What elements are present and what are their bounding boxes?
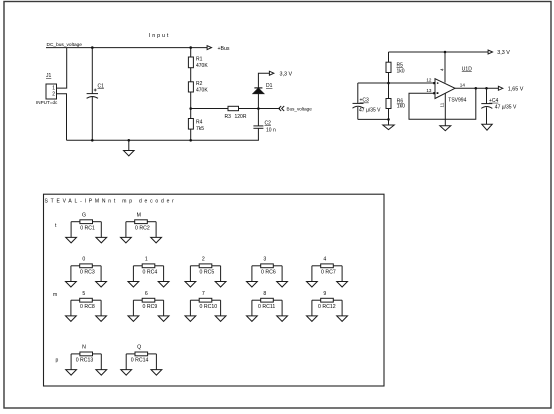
jumper resistor RC9 0R (6) bbox=[128, 291, 169, 322]
svg-text:11: 11 bbox=[440, 102, 445, 107]
svg-text:120R: 120R bbox=[235, 114, 247, 120]
svg-text:47 µ/35 V: 47 µ/35 V bbox=[359, 108, 381, 114]
svg-text:0 RC11: 0 RC11 bbox=[258, 304, 275, 310]
jumper resistor RC13 0R (N) bbox=[66, 345, 107, 376]
ground input section bbox=[128, 140, 130, 150]
resistor R4 7k5 bbox=[188, 119, 193, 130]
svg-text:3: 3 bbox=[263, 256, 266, 262]
opamp plus mark bbox=[437, 82, 439, 84]
svg-text:1,65 V: 1,65 V bbox=[508, 86, 524, 92]
wire D1 cathode to 3.3V bbox=[258, 73, 269, 88]
jumper resistor RC10 0R (7) bbox=[185, 291, 226, 322]
junction C1 bottom bbox=[91, 139, 94, 142]
wire divider node to pin 12 bbox=[358, 82, 434, 84]
svg-text:2: 2 bbox=[202, 256, 205, 262]
jumper resistor RC4 0R (1) bbox=[128, 256, 169, 287]
svg-text:M: M bbox=[137, 212, 141, 218]
svg-text:R3: R3 bbox=[225, 114, 232, 120]
svg-text:m: m bbox=[53, 292, 57, 298]
svg-text:8: 8 bbox=[263, 291, 266, 297]
C3 plates bbox=[353, 102, 364, 104]
jumper resistor RC5 0R (2) bbox=[185, 256, 226, 287]
wire C2 top bbox=[257, 109, 259, 126]
junction pin4 supply bbox=[444, 51, 447, 54]
jumper resistor RC1 0R (G) bbox=[66, 212, 107, 243]
svg-text:+C4: +C4 bbox=[489, 98, 499, 104]
svg-text:C2: C2 bbox=[265, 120, 272, 126]
wire C1 top bbox=[91, 48, 93, 94]
svg-text:0 RC10: 0 RC10 bbox=[200, 304, 218, 310]
wire top rail DC_bus_voltage bbox=[46, 47, 208, 49]
svg-text:J1: J1 bbox=[46, 73, 52, 79]
jumper resistor RC8 0R (5) bbox=[66, 291, 107, 322]
svg-text:0 RC9: 0 RC9 bbox=[143, 304, 158, 310]
svg-text:C1: C1 bbox=[98, 83, 105, 89]
svg-text:STEVAL-IPMNnt mp decoder: STEVAL-IPMNnt mp decoder bbox=[45, 198, 177, 204]
junction C1 top bbox=[91, 46, 94, 49]
svg-text:9: 9 bbox=[323, 291, 326, 297]
ground divider bbox=[388, 119, 390, 125]
svg-text:0 RC6: 0 RC6 bbox=[261, 270, 276, 276]
svg-text:INPUT=dc: INPUT=dc bbox=[36, 100, 58, 105]
junction feedback tap bbox=[475, 87, 478, 90]
wire mid rail to R3 bbox=[191, 108, 228, 110]
svg-text:13: 13 bbox=[426, 88, 432, 93]
jumper resistor RC7 0R (4) bbox=[307, 256, 348, 287]
wire C3 bottom bbox=[357, 107, 359, 119]
node 1,65 V arrow bbox=[498, 86, 502, 90]
net Bus_voltage chevron bbox=[282, 106, 285, 111]
svg-text:5: 5 bbox=[82, 291, 85, 297]
wire J1 pin1 to top rail bbox=[57, 48, 67, 89]
wire feedback loop to pin 13 bbox=[409, 88, 476, 119]
svg-text:0 RC8: 0 RC8 bbox=[80, 304, 95, 310]
svg-text:4: 4 bbox=[323, 256, 326, 262]
resistor R3 120R bbox=[228, 106, 239, 110]
junction R4 bottom bbox=[189, 139, 192, 142]
wire C3 top bbox=[357, 83, 359, 103]
svg-text:4: 4 bbox=[440, 68, 445, 71]
svg-text:+Bus: +Bus bbox=[218, 46, 230, 52]
jumper resistor RC14 0R (Q) bbox=[121, 345, 162, 376]
svg-text:0 RC1: 0 RC1 bbox=[80, 226, 95, 232]
jumper resistor RC12 0R (9) bbox=[307, 291, 348, 322]
C4 plates bbox=[481, 103, 492, 105]
ground C4 bbox=[482, 124, 493, 130]
svg-text:7: 7 bbox=[202, 291, 205, 297]
svg-text:N: N bbox=[82, 345, 86, 351]
svg-text:R4: R4 bbox=[196, 120, 203, 126]
svg-text:+C3: +C3 bbox=[360, 98, 370, 104]
pin 4 supply wire bbox=[444, 52, 446, 83]
svg-text:2: 2 bbox=[52, 91, 55, 97]
jumper resistor RC3 0R (0) bbox=[66, 256, 107, 287]
svg-text:R1: R1 bbox=[196, 57, 203, 63]
jumper resistor RC6 0R (3) bbox=[247, 256, 288, 287]
wire C2 bottom bbox=[257, 128, 259, 140]
svg-text:0: 0 bbox=[82, 256, 85, 262]
svg-text:0 RC12: 0 RC12 bbox=[318, 304, 336, 310]
junction ground stub bbox=[128, 139, 131, 142]
svg-text:0 RC5: 0 RC5 bbox=[200, 270, 215, 276]
svg-text:D1: D1 bbox=[266, 83, 273, 89]
svg-text:0 RC2: 0 RC2 bbox=[135, 226, 150, 232]
junction R6 bottom bbox=[387, 118, 390, 121]
svg-text:U1D: U1D bbox=[462, 66, 472, 72]
wire 3.3V rail opamp bbox=[389, 51, 489, 53]
svg-text:p: p bbox=[56, 357, 59, 363]
node R2/R4/R3 junction bbox=[189, 107, 192, 110]
C2 plates bbox=[253, 125, 263, 127]
node 3,3 V arrow right bbox=[488, 50, 492, 54]
svg-text:R2: R2 bbox=[196, 81, 203, 87]
jumper resistor RC11 0R (8) bbox=[247, 291, 288, 322]
svg-text:0 RC7: 0 RC7 bbox=[321, 270, 336, 276]
junction divider node bbox=[387, 82, 390, 85]
svg-text:7k5: 7k5 bbox=[196, 126, 204, 132]
C1 plus sign bbox=[94, 89, 97, 91]
svg-text:3,3 V: 3,3 V bbox=[497, 50, 510, 56]
svg-text:14: 14 bbox=[460, 83, 466, 88]
svg-text:12: 12 bbox=[426, 78, 432, 83]
resistor R6 1k0 bbox=[386, 99, 391, 109]
svg-text:0 RC13: 0 RC13 bbox=[76, 358, 94, 364]
node D1/C2/Bus junction bbox=[257, 107, 260, 110]
junction C4 tap bbox=[485, 87, 488, 90]
svg-text:Bus_voltage: Bus_voltage bbox=[287, 107, 313, 112]
svg-text:6: 6 bbox=[145, 291, 148, 297]
resistor R2 470K bbox=[188, 82, 193, 92]
wire C1 bottom bbox=[91, 97, 93, 140]
opamp minus mark bbox=[437, 92, 439, 94]
wire C4 top bbox=[486, 88, 488, 103]
C1 plates bbox=[87, 93, 98, 95]
node +Bus arrow bbox=[207, 46, 211, 50]
junction R1 top bbox=[189, 46, 192, 49]
svg-text:0 RC4: 0 RC4 bbox=[143, 270, 158, 276]
node 3,3 V arrow bbox=[269, 71, 273, 75]
svg-text:470K: 470K bbox=[196, 88, 208, 94]
svg-text:1k0: 1k0 bbox=[397, 68, 405, 74]
decoder box frame bbox=[44, 194, 385, 386]
pin 11 wire bbox=[444, 93, 446, 125]
wire bottom ground rail bbox=[67, 139, 259, 141]
svg-text:0 RC3: 0 RC3 bbox=[80, 270, 95, 276]
svg-text:1: 1 bbox=[145, 256, 148, 262]
svg-text:TSV994: TSV994 bbox=[448, 98, 466, 104]
svg-text:47 µ/35 V: 47 µ/35 V bbox=[495, 105, 517, 111]
wire C3/R6 ground run bbox=[358, 118, 389, 120]
svg-text:10 n: 10 n bbox=[266, 127, 276, 133]
ground opamp bbox=[440, 126, 451, 131]
svg-text:0 RC14: 0 RC14 bbox=[131, 358, 149, 364]
wire J1 pin2 to bottom rail bbox=[57, 94, 67, 141]
resistor R1 470K bbox=[190, 48, 192, 57]
svg-text:Q: Q bbox=[137, 345, 141, 351]
wire R3 to node bbox=[239, 108, 281, 110]
wire D1 anode bbox=[257, 93, 259, 108]
resistor R5 1k0 bbox=[388, 52, 390, 62]
wire C4 bottom bbox=[486, 107, 488, 124]
svg-text:470K: 470K bbox=[196, 63, 208, 69]
D1 cathode bar bbox=[254, 87, 262, 89]
svg-text:1k0: 1k0 bbox=[397, 104, 405, 110]
svg-text:3,3 V: 3,3 V bbox=[280, 71, 293, 77]
svg-text:Input: Input bbox=[149, 33, 171, 39]
jumper resistor RC2 0R (M) bbox=[121, 212, 162, 243]
svg-text:G: G bbox=[82, 212, 86, 218]
